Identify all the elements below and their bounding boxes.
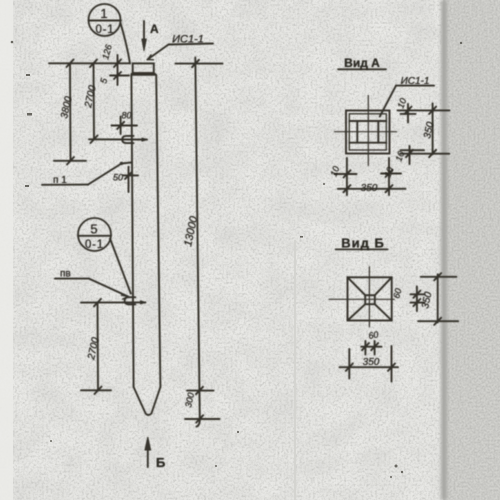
pile body right edge (156, 75, 160, 387)
view A inner verticals (356, 121, 358, 143)
view arrow A (143, 21, 145, 44)
svg-text:пв: пв (60, 269, 71, 280)
svg-text:0-1: 0-1 (85, 239, 104, 251)
right scan fold dark line (441, 0, 447, 500)
svg-text:5: 5 (90, 222, 97, 237)
dim 50 tick line (123, 174, 138, 176)
dim 80 tick line (112, 125, 138, 127)
top level line right (13000 top) (176, 63, 223, 65)
pile tip (134, 387, 161, 415)
left page edge light strip (0, 0, 13, 500)
dim 300 level lines (187, 390, 214, 392)
level line 2700 lower bottom (81, 389, 111, 391)
level line 3800 bottom (54, 160, 86, 162)
svg-text:А: А (150, 22, 159, 36)
faint fold line lower center (294, 240, 296, 500)
leader from circle 5 to loop 2 (110, 239, 131, 294)
svg-text:п 1: п 1 (53, 175, 67, 186)
view A inner horizontals (349, 120, 386, 122)
top level line left (49, 62, 129, 64)
svg-text:ИС1-1: ИС1-1 (401, 76, 430, 87)
label p1 leader (42, 184, 88, 186)
pile body left edge (131, 75, 133, 387)
view B center lines (368, 267, 370, 327)
svg-text:Вид Б: Вид Б (341, 236, 385, 251)
view A outer square (346, 111, 390, 154)
title underline (338, 68, 386, 70)
title underline (336, 248, 388, 250)
leader to square (380, 86, 396, 117)
tick at 126 (114, 60, 121, 68)
svg-text:Вид А: Вид А (344, 56, 380, 70)
svg-text:350: 350 (361, 183, 378, 194)
dim 2700 lower vertical (97, 303, 100, 391)
pile cap (133, 63, 154, 73)
svg-text:Б: Б (156, 455, 165, 470)
pile cap thick bottom joint (132, 73, 155, 76)
lifting loop 2 (125, 297, 136, 304)
dim 10 bottom left (view A) (335, 173, 357, 175)
label pv leader (55, 278, 89, 280)
dim 3800 line (69, 63, 72, 161)
dim 126 extension vertical (117, 55, 119, 85)
dim 10 bottom mid (view A) (381, 173, 401, 175)
dim 350 right (view A) (432, 103, 434, 154)
view A bottom extension left (346, 158, 348, 195)
scan dirt specks (11, 41, 462, 478)
svg-text:60: 60 (368, 329, 380, 341)
svg-text:80: 80 (122, 111, 132, 121)
dim 350 bottom line (view B) (340, 366, 399, 368)
view B bottom extensions (348, 349, 350, 379)
line at first loop level (89, 138, 147, 140)
dim 80 vertical (120, 117, 122, 135)
view A inner square (349, 114, 386, 150)
dim 50 vertical (128, 167, 130, 192)
line at loop 2 level (81, 301, 146, 303)
section circle 5/0-1 (78, 218, 111, 251)
view A center lines (367, 96, 369, 166)
svg-text:ИС1-1: ИС1-1 (172, 34, 204, 46)
dim 350 right (view B) (437, 274, 439, 322)
view B center square (365, 295, 375, 304)
dim 13000/300 vertical line (195, 58, 200, 427)
dim 2700 upper line (93, 63, 96, 139)
dim 10 bottom right (view A) (409, 146, 411, 164)
dim 10 top right (view A) (407, 104, 409, 123)
lifting loop 1 (122, 136, 133, 143)
svg-text:0-1: 0-1 (95, 24, 114, 36)
dim 5 tick line (110, 75, 129, 77)
dim 350 bottom line (view A) (338, 188, 406, 190)
right scan region darker (443, 0, 500, 500)
svg-text:350: 350 (363, 357, 380, 368)
section circle 1/0-1 (89, 4, 121, 36)
label ИС1-1 (view A) underline (396, 85, 434, 87)
view B outer square (348, 277, 392, 320)
dim 300 ticks (196, 387, 203, 394)
label ИС1-1 leader (pile) (169, 44, 214, 45)
view A bottom extension right (388, 158, 390, 195)
view B diagonals (348, 277, 366, 295)
svg-text:1: 1 (100, 6, 107, 21)
dim 60 bottom (view B) (364, 341, 366, 355)
leader from circle 1 to pile cap (121, 23, 131, 64)
view arrow B (147, 448, 149, 467)
dim 60 right (view B) (416, 287, 418, 312)
svg-text:50: 50 (113, 173, 123, 183)
